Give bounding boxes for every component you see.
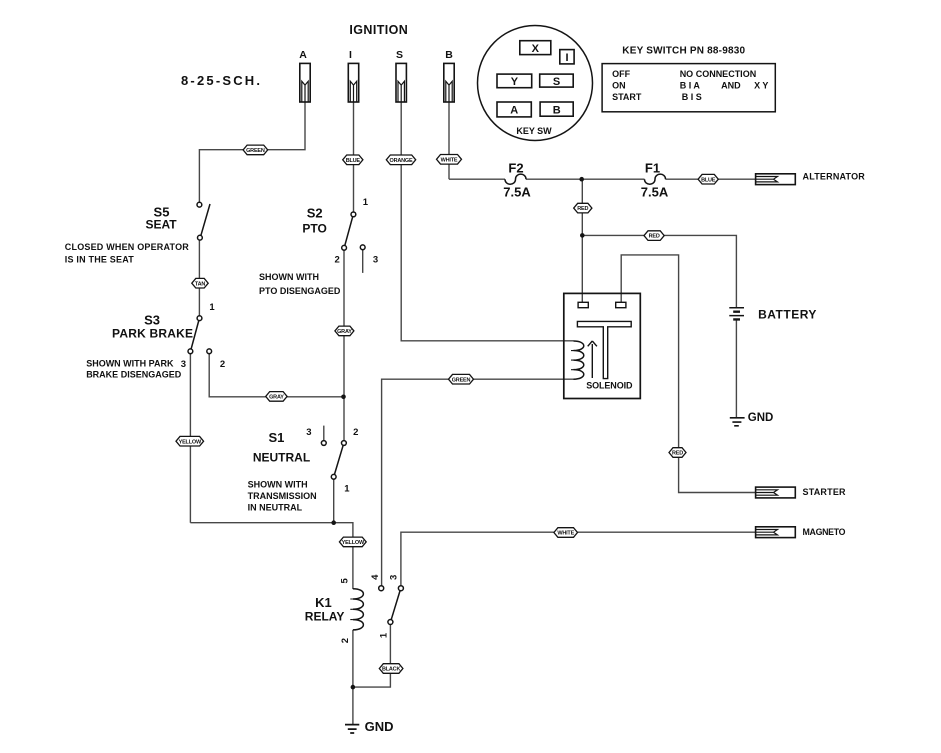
svg-text:I: I [349,49,352,61]
svg-text:S1: S1 [268,430,284,445]
svg-text:1: 1 [344,484,350,495]
wire yellow bus horizontal to relay pin5 [190,523,353,589]
svg-text:IN NEUTRAL: IN NEUTRAL [248,502,303,512]
svg-text:7.5A: 7.5A [503,185,531,200]
svg-text:3: 3 [389,575,400,580]
svg-text:PTO DISENGAGED: PTO DISENGAGED [259,286,341,296]
svg-text:2: 2 [340,638,351,643]
svg-text:3: 3 [181,359,186,370]
wire stub S1 pin3 [323,426,325,441]
svg-text:GRAY: GRAY [337,329,352,335]
connector I (ignition plug) [348,63,358,102]
wire label WHITE (magneto wire) [554,528,578,538]
svg-text:F1: F1 [645,161,660,176]
junction dot yellow bus at S1 [331,520,336,525]
svg-text:AND: AND [721,81,741,91]
wire S5 to S3 (tan) [198,240,200,316]
svg-text:S: S [396,49,403,61]
svg-text:X: X [532,43,540,55]
svg-text:5: 5 [340,577,351,583]
svg-text:GREEN: GREEN [246,148,265,154]
ground symbol at battery [730,418,745,426]
svg-text:B: B [553,104,561,116]
svg-text:STARTER: STARTER [803,487,847,497]
svg-text:A: A [299,49,307,61]
wire solenoid coil bottom to relay pin4 (green) [382,379,574,586]
svg-text:I: I [565,52,568,64]
svg-text:SEAT: SEAT [145,218,177,232]
svg-text:BLUE: BLUE [701,177,716,183]
wire S3 pin3 down to yellow bus [189,354,191,523]
wire label BLACK (relay pin1 wire) [379,664,403,674]
svg-text:SHOWN WITH PARK: SHOWN WITH PARK [86,359,174,369]
key switch terminal S [540,74,574,87]
wire label GREEN (solenoid coil wire) [449,374,474,384]
svg-text:GREEN: GREEN [452,377,471,383]
solenoid right terminal [616,302,626,307]
svg-text:B: B [445,49,453,61]
fuse F1 symbol [645,174,666,184]
switch S5 seat: contacts and arm [197,202,210,240]
solenoid left terminal [578,302,588,307]
solenoid actuation arrow [588,341,597,378]
svg-text:WHITE: WHITE [557,531,574,537]
svg-text:NO CONNECTION: NO CONNECTION [680,69,757,79]
junction dot red wire to battery [580,233,585,238]
svg-text:GRAY: GRAY [269,395,284,401]
key switch terminal B [540,102,573,116]
svg-text:IGNITION: IGNITION [349,23,408,37]
svg-text:SHOWN WITH: SHOWN WITH [248,480,308,490]
wire label BLUE (connector I wire) [343,155,363,165]
connector S (ignition plug) [396,63,406,102]
wire fuse line segment B to F2 [449,178,505,180]
svg-text:BATTERY: BATTERY [758,308,817,322]
connector lug ALTERNATOR [756,174,796,185]
key switch terminal Y [497,74,532,88]
svg-text:F2: F2 [508,161,523,176]
junction dot at F2/F1 [579,177,584,182]
svg-text:IS IN THE SEAT: IS IN THE SEAT [65,255,134,265]
relay K1 switch: contacts and arm [379,586,404,625]
junction dot gray wire at S2 [341,395,346,400]
svg-text:PARK BRAKE: PARK BRAKE [112,327,193,341]
svg-text:BRAKE DISENGAGED: BRAKE DISENGAGED [86,370,182,380]
svg-text:S: S [553,76,560,88]
switch S3 park brake: contacts and arm [188,316,212,354]
svg-text:ON: ON [612,81,626,91]
connector lug MAGNETO [756,527,796,538]
svg-text:4: 4 [370,574,381,580]
wire label GRAY (S2 wire) [335,326,354,336]
wire solenoid right terminal to starter connector (red) [621,255,755,493]
wire red vertical junction to solenoid left terminal [581,179,583,302]
wire fuse line F2 to F1 [526,178,645,180]
solenoid coil [574,341,584,379]
svg-text:YELLOW: YELLOW [179,439,202,445]
svg-text:2: 2 [353,427,358,438]
wire battery negative to ground [735,320,737,418]
wire connector-S to solenoid coil top (orange) [401,102,573,341]
relay K1 coil junction ticks [350,599,353,620]
svg-text:CLOSED WHEN OPERATOR: CLOSED WHEN OPERATOR [65,242,189,252]
solenoid plunger T [577,321,631,378]
wire F1 to alternator connector (blue) [666,178,756,180]
svg-text:B I S: B I S [682,92,702,102]
key switch circle KEY SW [478,26,593,141]
connector lug STARTER [756,487,796,498]
svg-text:2: 2 [335,255,340,266]
svg-text:MAGNETO: MAGNETO [803,527,846,537]
svg-text:B I A: B I A [680,81,701,91]
connector B (ignition plug) [444,63,454,102]
wire S3 pin2 to S2 (gray) [209,354,343,397]
key switch terminal X [520,41,551,55]
svg-text:Y: Y [511,76,519,88]
svg-text:K1: K1 [315,595,332,610]
wire label GRAY (S3 pin2 wire) [266,392,287,402]
fuse F2 symbol [505,174,526,184]
wire label BLUE (alternator wire) [698,174,718,184]
svg-text:2: 2 [220,359,225,370]
svg-text:1: 1 [379,632,390,638]
svg-text:OFF: OFF [612,69,630,79]
svg-text:ORANGE: ORANGE [390,158,413,164]
battery symbol [729,308,744,320]
svg-text:GND: GND [365,719,394,734]
wire label TAN (S5-S3 wire) [192,278,208,288]
svg-text:RED: RED [577,206,588,212]
svg-text:KEY SWITCH PN 88-9830: KEY SWITCH PN 88-9830 [622,45,745,56]
wire red horizontal to battery [582,235,736,307]
key switch legend box [602,64,775,112]
wire label ORANGE (connector S wire) [386,155,415,165]
svg-text:KEY SW: KEY SW [516,126,552,136]
solenoid coil junction ticks [571,351,574,370]
svg-text:BLUE: BLUE [346,158,361,164]
wire label YELLOW (S3 pin3 wire) [176,436,204,446]
svg-text:1: 1 [363,197,369,208]
svg-text:8-25-SCH.: 8-25-SCH. [181,73,262,88]
wire label RED (fuse junction to solenoid) [574,203,592,213]
svg-text:BLACK: BLACK [382,667,400,673]
wire stub S2 pin3 [362,250,364,273]
wire S1 pin1 down to yellow bus [333,479,335,523]
switch S1 neutral: contacts and arm [321,441,346,480]
wire connector-I down to S2 pin1 (blue) [353,102,355,212]
wire relay pin3 to magneto connector (white) [401,532,756,586]
svg-text:PTO: PTO [302,222,326,236]
svg-text:TAN: TAN [195,281,206,287]
ground symbol at relay [345,725,359,733]
svg-text:NEUTRAL: NEUTRAL [253,451,310,465]
svg-text:RED: RED [649,234,660,240]
svg-text:ALTERNATOR: ALTERNATOR [803,171,866,181]
wire label YELLOW (S1-relay wire) [339,537,366,547]
svg-text:S2: S2 [307,206,323,221]
wire relay coil pin2 down to ground [352,630,354,724]
wire connector-B down to fuse line (white) [448,102,450,179]
svg-text:3: 3 [373,255,378,266]
wire label RED (battery wire) [644,231,664,241]
svg-text:X Y: X Y [754,81,768,91]
svg-text:A: A [510,105,518,117]
wire label GREEN (connector A wire) [243,145,268,155]
wire connector-A to S5 seat switch (green) [199,102,305,202]
svg-text:SHOWN WITH: SHOWN WITH [259,272,319,282]
svg-text:RELAY: RELAY [305,610,345,624]
svg-text:START: START [612,92,642,102]
wire S2 pin2 down to S1 pin2 [343,250,345,440]
svg-text:1: 1 [209,302,215,313]
svg-text:RED: RED [672,451,683,457]
svg-text:WHITE: WHITE [441,157,458,163]
svg-text:S3: S3 [144,313,160,328]
switch S2 PTO: contacts and arm [342,212,365,250]
key switch terminal I [560,50,574,64]
svg-text:SOLENOID: SOLENOID [586,380,633,390]
wire label WHITE (connector B wire) [437,155,462,165]
solenoid box [564,293,641,398]
junction dot ground bus [351,685,356,690]
key switch terminal A [497,102,531,117]
svg-text:YELLOW: YELLOW [342,540,365,546]
wire relay pin1 down to ground junction (black) [353,624,391,687]
svg-text:TRANSMISSION: TRANSMISSION [248,491,317,501]
svg-text:GND: GND [748,412,774,424]
wire label RED (starter wire) [669,448,686,458]
svg-text:3: 3 [306,427,311,438]
svg-text:7.5A: 7.5A [641,185,669,200]
relay K1 coil [353,589,364,630]
connector A (ignition plug) [300,63,310,102]
